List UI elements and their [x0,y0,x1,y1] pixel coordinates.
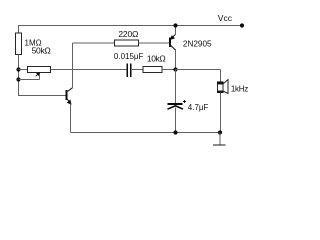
wire wiper vertical [39,75,41,80]
wire collector corner to R3 [73,42,115,44]
wire bottom rail [71,132,221,134]
svg-text:10kΩ: 10kΩ [147,54,166,64]
transistor Q2 base bar [169,38,171,48]
wire top rail Vcc [18,25,242,27]
wire left rail middle [18,55,20,96]
potentiometer R2 50k body [28,67,51,73]
node collector junction [173,67,177,71]
wire speaker bottom lead [220,93,222,133]
wire Q1 collector vertical [72,43,74,88]
wire C1 to R4 [132,69,143,71]
wire C2 bottom lead [175,108,177,133]
wire Q2 emitter vertical [175,26,177,35]
transistor Q1 base bar [66,90,68,100]
svg-text:220Ω: 220Ω [118,29,138,39]
wire ground stub [219,133,221,146]
node C2 bottom junction [173,130,177,134]
wire left rail top [18,26,20,34]
resistor R3 220 body [115,40,139,46]
transistor Q1 emitter diagonal with arrow [67,98,71,104]
wire Q2 collector vertical [175,50,177,70]
wire collector node to C2 [175,70,177,104]
speaker LS1 cone [223,80,228,94]
speaker LS1 body [218,84,224,91]
wire R3 to Q2 base [139,42,170,44]
resistor R4 10k body [143,67,162,73]
svg-text:4.7μF: 4.7μF [188,103,209,112]
resistor R1 1M [16,33,22,55]
wire Q1 base [18,95,66,97]
wire Q1 emitter vertical [70,104,72,133]
transistor Q1 collector diagonal [67,88,73,93]
node ground junction [218,130,222,134]
svg-text:2N2905: 2N2905 [183,39,212,48]
wire pot right to C1 [51,69,127,71]
node junction wiper [16,77,20,81]
svg-text:50kΩ: 50kΩ [32,46,51,56]
node junction pot top [16,67,20,71]
transistor Q2 emitter diagonal with arrow [171,34,176,39]
capacitor C2 4.7uF top plate [168,103,183,105]
node Q2 emitter rail junction [173,23,177,27]
svg-text:Vcc: Vcc [218,13,233,23]
wire pot left lead [19,69,28,71]
capacitor C2 4.7uF curved plate [168,106,184,109]
wire collector node to speaker [176,69,221,71]
svg-text:1kHz: 1kHz [231,84,248,93]
node Vcc terminal [240,23,244,27]
svg-text:0.015μF: 0.015μF [114,52,144,61]
wire speaker top lead [220,70,222,83]
transistor Q2 collector diagonal [170,45,176,50]
speaker LS1 terminals and frame [217,83,224,93]
wire wiper horizontal [19,79,40,81]
capacitor C1 0.015uF plates [127,63,131,77]
ground [213,144,226,146]
capacitor C2 polarity plus [183,100,186,103]
wire R4 to collector node [162,69,176,71]
potentiometer R2 wiper arrow [36,74,39,76]
